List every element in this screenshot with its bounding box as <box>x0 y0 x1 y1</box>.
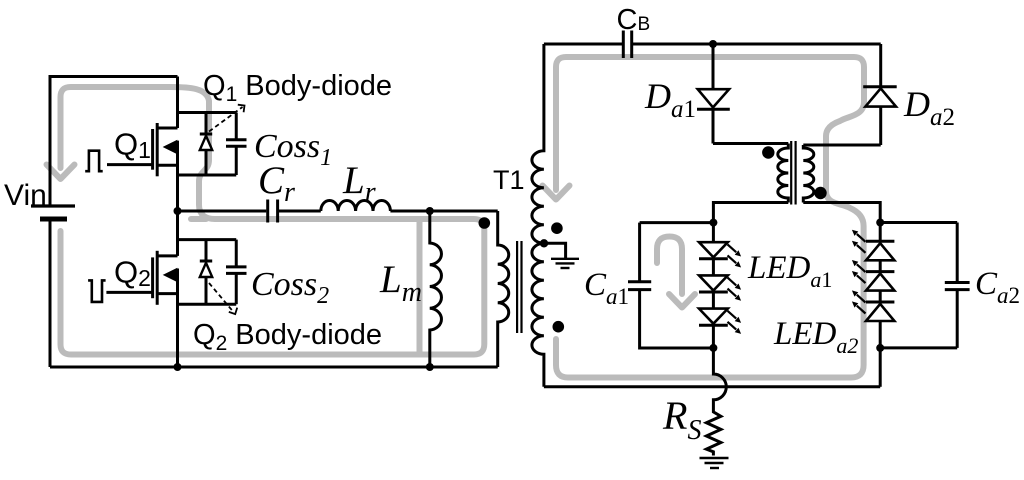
node Ta left polarity dot <box>762 146 774 158</box>
LED string LEDa2 <box>866 223 894 348</box>
wire gray Lm branch divider <box>417 221 423 353</box>
wire bottom rail <box>50 366 498 369</box>
node Lm bottom <box>426 363 434 371</box>
dashed callout arrow Q1 body-diode <box>209 105 245 132</box>
svg-text:Q2 Body-diode: Q2 Body-diode <box>193 319 382 355</box>
node T1 secondary polarity dot top <box>551 222 563 234</box>
node Ta right polarity dot <box>814 187 826 199</box>
wire gray secondary current loop <box>556 57 864 378</box>
wire mid rail left <box>178 210 267 213</box>
wire secondary bottom rail <box>544 385 880 388</box>
ground Rs <box>700 458 729 468</box>
svg-text:T1: T1 <box>493 165 525 195</box>
resistor Rs <box>706 404 721 456</box>
LEDa1 emission arrows <box>728 244 742 334</box>
wire Vin bottom to ground rail <box>49 219 52 367</box>
inductor Lm <box>430 211 442 367</box>
gate pulse symbol Q1 <box>85 151 103 172</box>
transformer T1 primary winding <box>498 211 509 367</box>
svg-text:Ca2: Ca2 <box>975 266 1020 308</box>
wire Vin top to Q1 drain <box>50 77 178 207</box>
capacitor Ca1 <box>628 223 713 348</box>
diode Da1 <box>697 44 730 144</box>
wire Ta right winding bottom to LEDa2 <box>803 203 880 223</box>
transformer Ta core <box>791 141 795 205</box>
transformer Ta right winding <box>803 145 814 203</box>
node LEDa2 bottom <box>876 344 884 352</box>
inductor Lr <box>321 201 391 212</box>
battery Vin short plate <box>40 217 67 222</box>
capacitor Coss1 <box>226 113 247 176</box>
LED string LEDa1 <box>699 223 728 348</box>
svg-text:Lr: Lr <box>342 159 376 208</box>
node bottom rail Q2 source <box>174 363 182 371</box>
capacitor Cr <box>268 200 278 223</box>
wire gray arrowhead into Vin <box>47 165 75 180</box>
wire gray arrowhead into T1 secondary <box>543 186 570 200</box>
node Lm top <box>426 207 434 215</box>
wire secondary top rail to CB <box>544 43 623 46</box>
svg-text:Vin: Vin <box>4 179 47 212</box>
wire LEDa2 bottom to rail <box>879 348 882 387</box>
svg-text:Lm: Lm <box>379 258 422 308</box>
node mid rail Q1 source <box>174 207 182 215</box>
battery Vin long plate <box>31 204 75 207</box>
transistor Q1 <box>107 77 178 212</box>
capacitor Coss2 <box>226 240 247 305</box>
body-diode D1 of Q1 <box>178 113 237 176</box>
node LEDa1 bottom <box>709 344 717 352</box>
wire gray Ca1 circulating arrow <box>657 237 682 295</box>
wire gray mid-rail stub <box>191 216 206 222</box>
wire mid rail Cr to Lr <box>279 210 321 213</box>
transformer Ta left winding <box>778 144 789 203</box>
svg-text:Da1: Da1 <box>644 76 696 123</box>
wire Ta left winding bottom to LEDa1 <box>713 203 788 223</box>
node T1 secondary polarity dot bottom <box>553 321 565 333</box>
svg-text:RS: RS <box>662 393 701 446</box>
wire LEDa1 bottom to Rs with crossover hop <box>713 348 726 404</box>
svg-text:LEDa1: LEDa1 <box>747 250 832 292</box>
ground T1 center tap <box>551 259 579 268</box>
svg-text:Q1 Body-diode: Q1 Body-diode <box>203 70 392 106</box>
transistor Q2 <box>106 211 177 367</box>
node T1 secondary tap <box>540 239 548 247</box>
wire top rail CB to Da2 <box>632 43 881 46</box>
wire T1 center tap to ground <box>544 243 566 258</box>
node LEDa1 top <box>709 219 717 227</box>
wire gray primary current loop <box>61 87 485 355</box>
wire mid rail Lr to T1 <box>390 210 497 213</box>
capacitor Ca2 <box>880 223 969 348</box>
transformer T1 secondary winding <box>532 44 544 387</box>
diode Da2 <box>863 44 897 145</box>
node top rail Da1 <box>709 40 717 48</box>
svg-text:Q1: Q1 <box>114 127 151 164</box>
dashed callout arrow Q2 body-diode <box>209 283 237 314</box>
svg-text:LEDa2: LEDa2 <box>773 316 858 358</box>
wire Da2 to Ta right winding top <box>803 144 880 147</box>
LEDa2 emission arrows <box>852 230 866 314</box>
svg-text:Coss2: Coss2 <box>251 266 329 309</box>
svg-text:CB: CB <box>617 4 651 36</box>
wire gray arrowhead Ca1 loop <box>669 294 695 308</box>
transformer T1 core <box>517 241 521 333</box>
gate pulse symbol Q2 <box>88 280 106 302</box>
node T1 primary polarity dot <box>479 217 491 229</box>
body-diode D2 of Q2 <box>178 240 237 305</box>
node LEDa2 top <box>876 219 884 227</box>
capacitor CB <box>623 31 631 59</box>
svg-text:Q2: Q2 <box>114 255 151 292</box>
svg-text:Ca1: Ca1 <box>584 267 629 309</box>
svg-text:Cr: Cr <box>258 159 295 208</box>
wire Da1 to balancing transformer left winding <box>713 142 788 145</box>
svg-text:Da2: Da2 <box>903 84 955 131</box>
